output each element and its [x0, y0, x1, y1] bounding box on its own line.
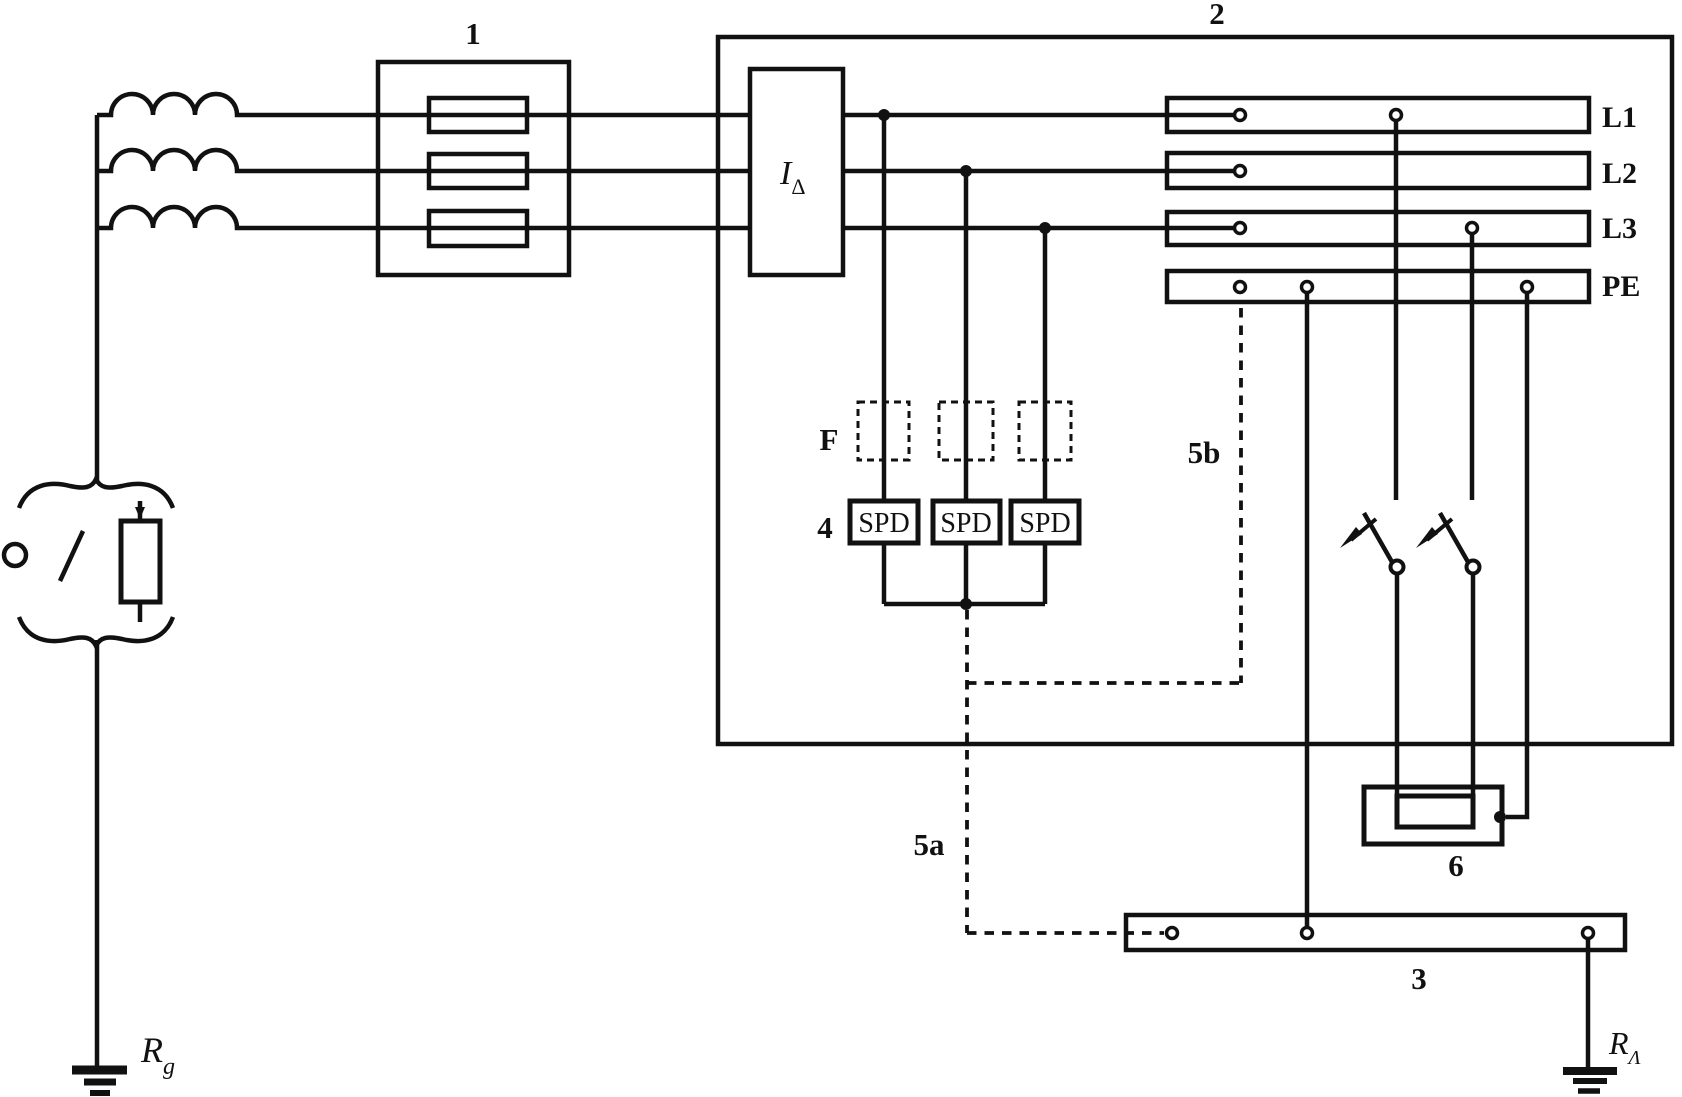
surge gap electrode circle: [4, 544, 26, 566]
svg-text:SPD: SPD: [858, 508, 909, 539]
RCD I-delta box: [750, 69, 843, 275]
svg-text:L1: L1: [1602, 101, 1637, 134]
terminal on L1 bar left: [1235, 110, 1246, 121]
switch 2 hinge circle: [1467, 561, 1480, 574]
terminal on bar 3 middle: [1302, 928, 1313, 939]
surge gap cloud bottom brace: [19, 617, 173, 646]
wire SPD common bus: [884, 602, 1045, 607]
fuse F3 in box 1: [429, 211, 527, 246]
svg-text:2: 2: [1209, 0, 1225, 31]
svg-text:3: 3: [1411, 961, 1427, 996]
terminal on L1 bar right: [1391, 110, 1402, 121]
svg-text:SPD: SPD: [1019, 508, 1070, 539]
junction node at equipment 6: [1494, 811, 1506, 823]
svg-text:5a: 5a: [914, 827, 946, 862]
dashed bonding conductor 5a vertical: [965, 610, 969, 933]
wire PE bar to equipment 6: [1506, 293, 1527, 817]
wire switch 2 to equipment 6: [1471, 573, 1476, 798]
svg-text:SPD: SPD: [940, 508, 991, 539]
busbar L3: [1167, 212, 1589, 245]
surge gap cloud top brace: [19, 479, 173, 508]
dashed bonding conductor 5b horizontal: [967, 681, 1241, 685]
SPD box 3: [1011, 501, 1079, 543]
earthing busbar 3: [1126, 915, 1625, 950]
switch 2 trip arrowhead: [1416, 527, 1438, 548]
busbar L1: [1167, 98, 1589, 132]
surge arrester top arrowhead: [135, 507, 145, 519]
wire L1 with transformer winding: [97, 94, 1234, 115]
wire L3 bar to switch 2: [1470, 234, 1475, 500]
svg-text:F: F: [820, 422, 839, 457]
svg-text:4: 4: [817, 510, 833, 545]
dashed bonding conductor 5b vertical: [1239, 308, 1243, 683]
disconnector F dashed box 1: [858, 402, 909, 460]
disconnector F dashed box 2: [939, 402, 993, 460]
box 2 enclosure: [718, 37, 1672, 744]
junction node on L1: [878, 109, 890, 121]
SPD box 2: [933, 501, 1000, 543]
surge arrester bottom lead: [138, 602, 143, 622]
terminal on L2 bar: [1235, 166, 1246, 177]
SPD box 1: [850, 501, 918, 543]
terminal on bar 3 left: [1167, 928, 1178, 939]
svg-text:5b: 5b: [1188, 435, 1221, 470]
terminal on PE bar 2: [1302, 282, 1313, 293]
surge arrester body: [121, 521, 160, 602]
earth electrode RA symbol: [1563, 1067, 1617, 1075]
switch 2 trip arrow shaft: [1427, 519, 1452, 540]
terminal on PE bar 1: [1235, 282, 1246, 293]
busbar L2: [1167, 153, 1589, 188]
svg-text:1: 1: [465, 16, 481, 51]
surge arrester top lead: [138, 501, 143, 521]
terminal on L3 bar right: [1467, 223, 1478, 234]
wire neutral-earth vertical upper: [95, 115, 100, 482]
terminal on PE bar 3: [1522, 282, 1533, 293]
dashed bonding conductor 5a horizontal: [967, 931, 1164, 935]
junction node on L3: [1039, 222, 1051, 234]
terminal on bar 3 right: [1583, 928, 1594, 939]
wire switch 1 to equipment 6: [1395, 573, 1400, 798]
switch 1 blade: [1364, 513, 1392, 562]
wire PE bar to earthing bar 3: [1305, 293, 1310, 927]
earth electrode Rg symbol: [72, 1066, 127, 1075]
switch 2 blade: [1440, 513, 1468, 562]
junction node on L2: [960, 165, 972, 177]
svg-text:6: 6: [1448, 848, 1464, 883]
surge gap slash: [60, 531, 83, 581]
svg-text:PE: PE: [1602, 270, 1640, 303]
wire neutral-earth vertical lower: [95, 640, 100, 1067]
svg-text:L2: L2: [1602, 157, 1637, 190]
wire L3 with transformer winding: [97, 207, 1234, 228]
svg-text:L3: L3: [1602, 212, 1637, 245]
wire L2 with transformer winding: [97, 150, 1234, 171]
terminal on L3 bar left: [1235, 223, 1246, 234]
wire earthing bar 3 to earth RA: [1586, 939, 1591, 1069]
wire L1 bar to switch 1: [1394, 121, 1399, 500]
disconnector F dashed box 3: [1019, 402, 1071, 460]
equipment 6 outer box: [1364, 787, 1502, 844]
switch 1 trip arrow shaft: [1351, 519, 1376, 540]
wire SPD drop L1: [882, 115, 887, 604]
junction node SPD bus: [960, 598, 972, 610]
switch 1 trip arrowhead: [1340, 527, 1362, 548]
fuse F2 in box 1: [429, 154, 527, 188]
box 1 main distribution board: [378, 62, 569, 275]
wire SPD drop L2: [964, 171, 969, 604]
switch 1 hinge circle: [1391, 561, 1404, 574]
equipment 6 inner box: [1397, 796, 1473, 827]
busbar PE: [1167, 271, 1589, 302]
fuse F1 in box 1: [429, 98, 527, 132]
wire SPD drop L3: [1043, 228, 1048, 604]
